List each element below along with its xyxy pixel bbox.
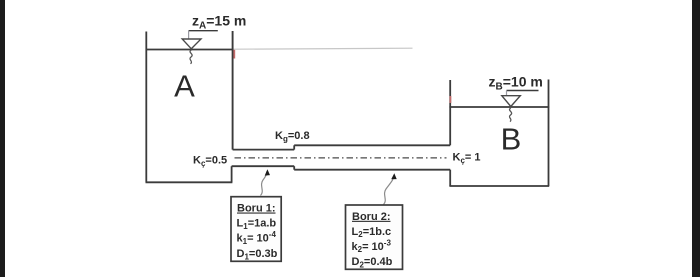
Boru 1 info box: [231, 197, 281, 262]
z_B leader vertical drop: [506, 91, 508, 96]
leader curve from Boru 2 box to pipe 2: [384, 179, 394, 204]
red mark on A right wall below water line: [233, 50, 235, 59]
red mark on B left wall above water line: [449, 96, 451, 103]
arrowhead leader 1: [265, 169, 270, 175]
leader curve from Boru 1 box to pipe 1: [261, 172, 268, 196]
pipe 2 bottom edge: [294, 169, 450, 171]
arrowhead leader 2: [391, 173, 397, 179]
right black border bar: [692, 0, 700, 277]
svg-text:A: A: [174, 69, 195, 104]
water level triangle A: [182, 39, 201, 49]
svg-text:Kg=0.8: Kg=0.8: [275, 130, 310, 143]
reservoir A left wall: [145, 32, 147, 183]
reservoir B water surface line: [449, 106, 549, 108]
Boru 2 info box: [346, 205, 403, 269]
reservoir B right wall: [548, 80, 550, 187]
svg-text:Boru 1:: Boru 1:: [237, 203, 276, 215]
squiggle under triangle B: [509, 108, 511, 122]
z_A leader vertical drop: [188, 31, 190, 39]
svg-text:Kç= 1: Kç= 1: [453, 152, 481, 165]
svg-text:D1=0.3b: D1=0.3b: [237, 248, 278, 261]
pipe 1 bottom edge: [232, 165, 295, 167]
reservoir A bottom: [146, 181, 233, 183]
pipe centerline dash-dot: [235, 157, 447, 159]
expansion step bottom: [293, 166, 295, 170]
expansion step top: [293, 145, 295, 149]
svg-text:L2=1b.c: L2=1b.c: [352, 226, 392, 239]
z_B leader underline: [507, 90, 539, 92]
reservoir A right wall lower segment: [231, 166, 233, 182]
left black border bar: [0, 0, 5, 277]
reservoir B left wall upper segment: [449, 80, 451, 145]
z_A leader underline: [189, 30, 218, 32]
reservoir B bottom: [449, 185, 549, 187]
water level triangle B: [502, 96, 521, 107]
datum reference line (faint) from A water level to the right: [233, 48, 413, 49]
pipe 2 top edge: [294, 144, 450, 146]
svg-text:D2=0.4b: D2=0.4b: [352, 256, 393, 269]
svg-text:Kç=0.5: Kç=0.5: [193, 155, 227, 168]
svg-text:B: B: [501, 122, 522, 157]
reservoir A water surface line: [146, 49, 234, 51]
reservoir A right wall upper segment: [232, 31, 234, 150]
pipe 1 top edge: [233, 149, 295, 151]
reservoir B left wall lower segment: [449, 170, 451, 186]
svg-text:L1=1a.b: L1=1a.b: [237, 218, 277, 231]
squiggle under triangle A: [190, 50, 192, 64]
svg-text:Boru 2:: Boru 2:: [352, 211, 391, 223]
